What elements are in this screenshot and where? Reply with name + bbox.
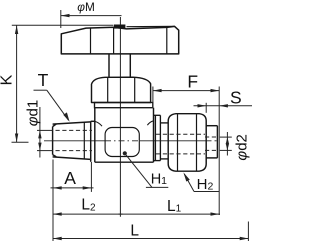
dimension phi-d2: [220, 132, 232, 156]
svg-text:φM: φM: [77, 0, 95, 14]
label H2: [184, 174, 219, 192]
svg-text:S: S: [230, 87, 242, 107]
svg-text:L: L: [130, 223, 139, 240]
body face panel: [105, 128, 139, 157]
stem: [109, 54, 130, 77]
right fitting ring: [154, 115, 169, 160]
bonnet nut: [92, 77, 151, 102]
valve body: [95, 108, 154, 163]
dimension A: [51, 160, 94, 242]
dimension L: [53, 222, 248, 242]
svg-text:K: K: [0, 74, 15, 85]
dimension L1: [119, 213, 221, 215]
dimension K: [12, 25, 114, 142]
vertical centerline: [119, 17, 121, 217]
dimension phi-M: [61, 10, 122, 28]
handle: [61, 26, 178, 54]
horizontal centerline: [44, 140, 217, 142]
label T leader: [34, 90, 69, 120]
svg-text:φd2: φd2: [233, 134, 250, 160]
fitting bore (hidden): [156, 134, 217, 154]
dimension S: [194, 103, 253, 113]
label H1: [125, 154, 168, 188]
dimension phi-d1: [37, 107, 53, 158]
svg-text:A: A: [64, 168, 76, 188]
union nut: [168, 114, 206, 172]
svg-text:φd1: φd1: [24, 100, 41, 126]
stem boss: [114, 25, 125, 29]
left male thread port: [53, 121, 154, 162]
dimension L2: [53, 213, 123, 215]
tube stub: [206, 126, 217, 158]
left port bore (hidden): [56, 130, 93, 150]
bonnet flange: [95, 103, 153, 108]
dimension F: [153, 87, 219, 216]
svg-text:T: T: [38, 70, 49, 90]
svg-text:F: F: [187, 71, 198, 91]
